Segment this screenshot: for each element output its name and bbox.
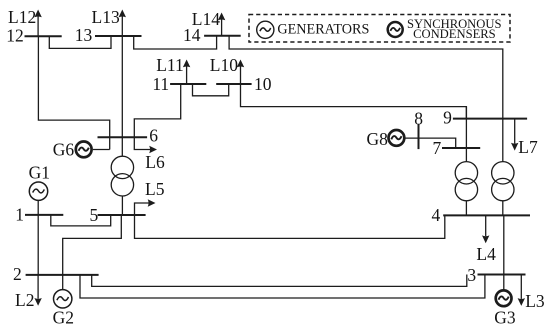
svg-text:1: 1 — [15, 205, 24, 225]
condenser G6 wire — [93, 149, 110, 151]
bus 2 — [26, 274, 99, 276]
transformer T4-7 — [455, 162, 477, 184]
svg-text:L12: L12 — [8, 7, 36, 27]
wire 1-5 — [51, 215, 111, 226]
svg-text:L5: L5 — [145, 179, 165, 199]
load L7 arrow — [514, 119, 516, 144]
bus 3 — [478, 274, 526, 276]
bus 8 — [418, 124, 420, 149]
wire 11-6 — [134, 84, 180, 137]
svg-text:2: 2 — [13, 264, 22, 284]
load L5 arrow — [135, 203, 149, 215]
vertical 9-7-transformer — [465, 107, 467, 162]
load L11 arrow — [186, 67, 188, 85]
load L10 arrow — [240, 67, 242, 85]
bus 6 — [98, 136, 148, 138]
svg-text:13: 13 — [75, 25, 93, 45]
load L4 arrow — [485, 215, 487, 236]
wire transformer to bus 4 right — [502, 201, 504, 216]
bus 4 — [443, 214, 530, 216]
wire 5-4 — [135, 215, 445, 238]
svg-text:L3: L3 — [525, 291, 545, 311]
svg-text:7: 7 — [433, 138, 442, 158]
wire 14-9 — [229, 36, 503, 119]
wire transformer to bus 4 left — [465, 201, 467, 216]
condenser G8 wire — [406, 138, 456, 148]
generator G2 — [54, 290, 72, 308]
load L6 arrow — [134, 137, 150, 149]
bus 12 — [25, 35, 62, 37]
svg-text:4: 4 — [432, 205, 441, 225]
wire G2 to bus 2 — [62, 275, 64, 290]
svg-text:L2: L2 — [15, 290, 34, 310]
wire 12-6 — [38, 36, 109, 149]
svg-text:12: 12 — [6, 25, 24, 45]
svg-text:L4: L4 — [476, 244, 496, 264]
svg-text:G3: G3 — [494, 307, 516, 327]
legend condenser symbol — [388, 22, 403, 37]
load L14 arrow — [221, 20, 223, 36]
svg-text:G6: G6 — [53, 139, 75, 159]
wire 9-10 — [241, 84, 467, 119]
svg-text:L14: L14 — [192, 9, 220, 29]
load L3 arrow — [520, 275, 522, 299]
svg-text:3: 3 — [467, 265, 476, 285]
wire 4-3 and G3 stub — [503, 215, 505, 289]
bus 14 — [204, 35, 241, 37]
svg-text:6: 6 — [149, 125, 158, 145]
svg-text:L7: L7 — [518, 137, 538, 157]
svg-text:CONDENSERS: CONDENSERS — [413, 27, 496, 41]
wire G1 to bus 1 — [37, 200, 39, 215]
svg-text:9: 9 — [443, 108, 452, 128]
svg-text:L10: L10 — [210, 55, 238, 75]
svg-text:L6: L6 — [145, 152, 165, 172]
bus 10 — [216, 83, 251, 85]
load L2 arrow — [37, 275, 39, 299]
wire transformer to bus 5 — [121, 196, 123, 215]
svg-text:G8: G8 — [367, 129, 389, 149]
svg-text:5: 5 — [89, 205, 98, 225]
bus 1 — [25, 214, 63, 216]
condenser G6 — [76, 142, 92, 158]
transformer T5-6 — [111, 156, 133, 178]
wire 10-11 — [193, 84, 229, 96]
svg-text:GENERATORS: GENERATORS — [277, 21, 369, 37]
transformer T4-9 — [492, 162, 514, 184]
bus 5 — [98, 214, 146, 216]
bus 11 — [170, 83, 206, 85]
svg-text:11: 11 — [152, 74, 169, 94]
wire 1-2 — [37, 215, 39, 275]
bus 7 — [442, 147, 480, 149]
legend generator symbol — [257, 21, 274, 38]
svg-text:G2: G2 — [53, 308, 74, 328]
wire 2-5 — [63, 215, 122, 275]
wire 12-13 — [49, 36, 111, 48]
bus 13 — [95, 35, 142, 37]
main vertical 13-6-transformer — [121, 36, 123, 156]
condenser G8 — [389, 130, 405, 146]
legend box — [249, 15, 510, 43]
wire 2-3 — [92, 275, 467, 287]
svg-text:L13: L13 — [92, 7, 120, 27]
svg-text:10: 10 — [254, 74, 272, 94]
condenser G3 — [496, 290, 512, 306]
svg-text:8: 8 — [414, 108, 423, 128]
wire 13-14 — [134, 36, 217, 49]
vertical 9-transformer right — [502, 119, 504, 162]
svg-text:G1: G1 — [29, 163, 50, 183]
load L12 arrow — [37, 17, 39, 37]
svg-text:L11: L11 — [156, 55, 184, 75]
wire 2-4 — [80, 275, 485, 299]
generator G1 — [29, 182, 47, 200]
bus 9 — [453, 118, 527, 120]
load L13 arrow — [121, 17, 123, 37]
